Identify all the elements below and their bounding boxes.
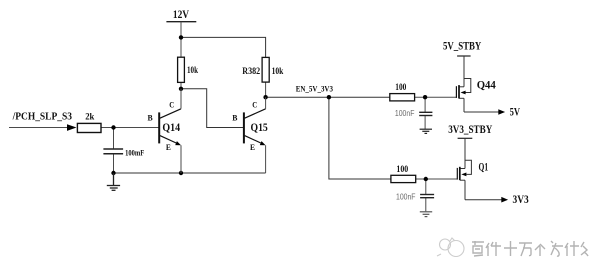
wire 10k bottom to node bbox=[180, 82, 182, 88]
svg-text:E: E bbox=[166, 143, 171, 152]
svg-text:B: B bbox=[232, 113, 238, 122]
transistor Q44 (PMOS) bbox=[459, 56, 471, 112]
ground top right bbox=[420, 129, 432, 133]
arrow 3V3 bbox=[501, 197, 508, 203]
junction node top cap bbox=[423, 95, 427, 99]
wire 2k to Q14 base bbox=[101, 127, 159, 129]
svg-text:/PCH_SLP_S3: /PCH_SLP_S3 bbox=[12, 111, 73, 123]
transistor Q1 (PMOS) bbox=[460, 138, 471, 199]
arrow 5V bbox=[498, 109, 505, 115]
十 bbox=[504, 241, 517, 256]
svg-text:100nF: 100nF bbox=[395, 109, 415, 118]
wire top 100 resistor to Q44 gate bbox=[415, 96, 457, 98]
svg-text:3V3: 3V3 bbox=[513, 194, 529, 206]
wire Q14 collector node to Q15 base bbox=[181, 89, 244, 128]
svg-text:5V: 5V bbox=[510, 106, 521, 118]
为 bbox=[551, 241, 563, 256]
wire EN branch down to 3V3 row bbox=[329, 97, 391, 179]
svg-text:3V3_STBY: 3V3_STBY bbox=[448, 124, 493, 136]
svg-text:100mF: 100mF bbox=[125, 148, 144, 158]
resistor 100 top bbox=[390, 94, 415, 101]
resistor 100 bottom bbox=[391, 175, 416, 182]
svg-text:10k: 10k bbox=[272, 66, 284, 76]
wire bottom cap stem lower bbox=[425, 198, 427, 212]
power symbol 3V3_STBY bar bbox=[458, 137, 473, 139]
watermark logo circles bbox=[437, 238, 464, 257]
watermark text 硬件十万个为什么 (stylized gray strokes) bbox=[472, 241, 588, 256]
wire bottom 100 resistor to Q1 gate bbox=[416, 178, 458, 180]
junction node input/cap bbox=[111, 125, 115, 129]
ground bottom right bbox=[420, 212, 432, 217]
svg-text:C: C bbox=[252, 100, 257, 109]
wire Q44 drain to 5V arrow bbox=[464, 111, 499, 113]
power symbol 12V bar bbox=[166, 21, 196, 23]
svg-text:Q14: Q14 bbox=[162, 122, 180, 134]
junction node EN branch bbox=[327, 95, 331, 99]
resistor R (10k left) bbox=[178, 57, 185, 82]
wire top cap stem upper bbox=[424, 97, 426, 112]
硬 bbox=[472, 241, 484, 256]
wire top cap stem lower bbox=[424, 116, 426, 130]
power symbol 5V_STBY bar bbox=[457, 55, 471, 57]
svg-text:B: B bbox=[148, 113, 154, 122]
svg-text:Q1: Q1 bbox=[479, 162, 489, 174]
wire EN_5V_3V3 net bbox=[266, 96, 390, 98]
capacitor C (100mF) bbox=[103, 149, 123, 154]
port arrow input bbox=[67, 124, 77, 131]
svg-text:Q15: Q15 bbox=[251, 122, 269, 134]
svg-text:R382: R382 bbox=[242, 66, 260, 76]
transistor Q14 bbox=[148, 89, 182, 173]
wire Q1 drain to 3V3 arrow bbox=[465, 199, 502, 201]
svg-text:100: 100 bbox=[395, 82, 406, 92]
ground left bbox=[107, 173, 120, 190]
wire cap to ground rail bbox=[113, 154, 115, 173]
capacitor 100nF top bbox=[419, 112, 432, 115]
svg-text:12V: 12V bbox=[173, 9, 190, 21]
个 bbox=[535, 244, 545, 256]
svg-text:2k: 2k bbox=[85, 111, 94, 121]
junction node Q15 collector bbox=[263, 95, 267, 99]
svg-text:C: C bbox=[169, 100, 174, 109]
wire emitter ground rail bbox=[114, 172, 266, 174]
junction node Q14 emitter on rail bbox=[179, 171, 183, 175]
capacitor 100nF bottom bbox=[420, 195, 434, 198]
svg-text:5V_STBY: 5V_STBY bbox=[443, 40, 482, 52]
junction node bottom cap bbox=[424, 177, 428, 181]
svg-text:E: E bbox=[250, 143, 255, 152]
件 bbox=[486, 242, 501, 256]
什 bbox=[565, 241, 579, 256]
resistor 2k bbox=[77, 123, 101, 132]
svg-text:EN_5V_3V3: EN_5V_3V3 bbox=[296, 83, 333, 93]
万 bbox=[519, 243, 532, 256]
resistor R382 bbox=[262, 57, 269, 82]
wire node to cap bbox=[113, 128, 115, 150]
junction node ground rail left bbox=[111, 171, 115, 175]
svg-text:Q44: Q44 bbox=[477, 80, 496, 92]
svg-text:100: 100 bbox=[396, 164, 408, 174]
wire R382 bottom to EN node bbox=[265, 82, 267, 97]
wire 12V rail to R382 bbox=[181, 37, 266, 57]
wire 12V vertical bbox=[180, 22, 182, 58]
svg-text:100nF: 100nF bbox=[396, 193, 416, 202]
svg-text:10k: 10k bbox=[187, 65, 198, 75]
junction node Q14 collector bbox=[179, 87, 183, 91]
wire input bbox=[9, 127, 67, 129]
transistor Q15 bbox=[232, 97, 268, 173]
么 bbox=[581, 242, 588, 256]
junction node 12V tap bbox=[179, 35, 183, 39]
wire bottom cap stem upper bbox=[425, 179, 427, 195]
